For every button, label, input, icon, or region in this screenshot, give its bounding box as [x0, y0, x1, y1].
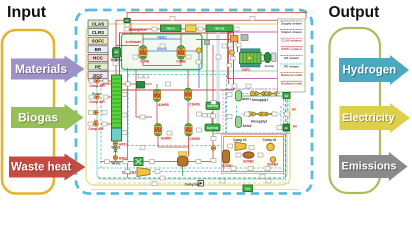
svg-text:A exhaust: A exhaust [125, 40, 141, 44]
svg-text:Emissions: Emissions [342, 161, 397, 173]
svg-text:PE: PE [95, 64, 101, 69]
svg-text:Air: Air [284, 126, 288, 130]
svg-text:Comp AIR: Comp AIR [89, 100, 105, 104]
svg-text:SOFC: SOFC [242, 68, 252, 72]
svg-text:Waste heat: Waste heat [11, 162, 71, 174]
svg-text:REDU: REDU [157, 36, 167, 40]
svg-text:Electricity: Electricity [342, 112, 395, 124]
svg-text:SOFC: SOFC [92, 39, 105, 44]
svg-text:SCRB3: SCRB3 [267, 163, 278, 167]
svg-text:CLRS: CLRS [92, 30, 105, 35]
svg-text:CARB: CARB [176, 60, 186, 64]
svg-text:A1HRS: A1HRS [158, 103, 169, 107]
svg-text:WHX1: WHX1 [111, 146, 120, 150]
svg-text:HEX-A: HEX-A [167, 26, 175, 30]
svg-text:Air: Air [293, 125, 298, 129]
svg-text:BR: BR [95, 47, 102, 52]
svg-text:Oxidized oxide: Oxidized oxide [281, 82, 303, 86]
svg-text:Biogas: Biogas [18, 111, 58, 125]
svg-text:Airsupply2: Airsupply2 [251, 120, 268, 124]
svg-text:Comp AIR: Comp AIR [88, 127, 104, 131]
svg-text:PE stream: PE stream [284, 64, 299, 68]
svg-text:CLAS exhaust: CLAS exhaust [281, 39, 301, 43]
svg-text:CLRB: CLRB [140, 60, 150, 64]
svg-text:SCRB2: SCRB2 [243, 160, 254, 164]
svg-text:WHX2: WHX2 [111, 162, 120, 166]
svg-text:H2 stream: H2 stream [284, 56, 299, 60]
svg-text:Inverter: Inverter [265, 64, 275, 68]
svg-text:Airin1: Airin1 [242, 97, 251, 101]
svg-text:Materials: Materials [15, 62, 67, 76]
svg-text:S/O: S/O [115, 52, 119, 54]
svg-text:C1HRS: C1HRS [189, 103, 200, 107]
svg-text:A2HRS: A2HRS [161, 137, 172, 141]
svg-text:Airin2: Airin2 [242, 124, 251, 128]
svg-text:Hydrogen: Hydrogen [343, 65, 397, 77]
svg-text:Airsupply1: Airsupply1 [252, 98, 269, 102]
svg-text:HCC: HCC [93, 56, 104, 61]
svg-text:CLAS: CLAS [92, 21, 105, 26]
svg-text:HX: HX [125, 21, 129, 23]
svg-text:Comp h2: Comp h2 [263, 138, 277, 142]
svg-text:Reduced oxide: Reduced oxide [281, 73, 303, 77]
svg-text:SOFC exhaust: SOFC exhaust [281, 47, 302, 51]
svg-text:Comp AIR: Comp AIR [89, 84, 105, 88]
svg-text:Comp list: Comp list [185, 183, 200, 187]
svg-text:Air: Air [285, 94, 289, 98]
svg-text:SOFCVB: SOFCVB [207, 126, 218, 130]
svg-text:Output stream: Output stream [281, 30, 302, 34]
svg-text:C2HRS: C2HRS [189, 137, 200, 141]
svg-text:Air: Air [292, 108, 297, 112]
svg-text:Input: Input [7, 4, 47, 21]
svg-text:Comp h1: Comp h1 [233, 138, 247, 142]
svg-text:HEX-B2: HEX-B2 [215, 26, 225, 30]
svg-text:Output: Output [329, 4, 380, 21]
svg-text:Supply stream: Supply stream [281, 21, 302, 25]
svg-text:CpL: CpL [245, 187, 251, 191]
svg-text:Air: Air [94, 119, 99, 123]
